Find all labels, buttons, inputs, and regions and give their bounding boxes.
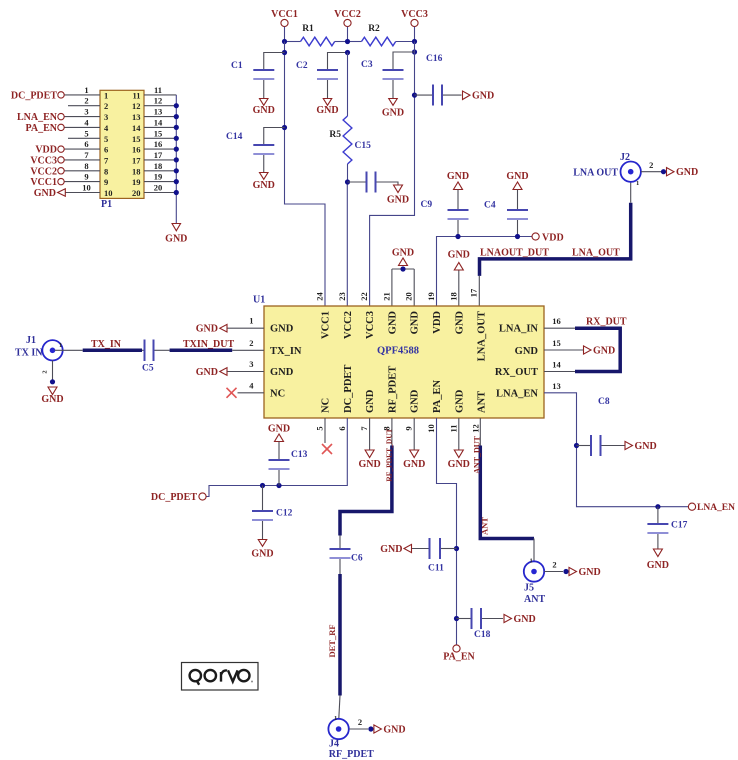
ground P1 bus bbox=[165, 224, 187, 245]
ground U1 pin9 bbox=[403, 418, 425, 470]
wire J4 pin2 bbox=[349, 717, 368, 729]
svg-text:ANT: ANT bbox=[477, 391, 488, 413]
P1 pin 6 wire bbox=[64, 139, 108, 155]
svg-text:C11: C11 bbox=[428, 564, 444, 574]
ground C12 bbox=[251, 540, 273, 560]
capacitor C8 bbox=[577, 397, 625, 456]
svg-text:LNA_OUT: LNA_OUT bbox=[572, 248, 620, 259]
svg-text:LNA_EN: LNA_EN bbox=[697, 503, 735, 513]
wire LNAOUT pin17 stub bbox=[478, 276, 480, 306]
wire VCC2 column to pin23 bbox=[346, 182, 348, 306]
terminal PA_EN bbox=[26, 123, 65, 134]
ground U1 pin3 bbox=[196, 367, 264, 378]
svg-text:22: 22 bbox=[359, 292, 369, 301]
svg-text:TX_IN: TX_IN bbox=[270, 346, 302, 357]
svg-text:2: 2 bbox=[42, 370, 49, 373]
svg-text:GND: GND bbox=[358, 459, 380, 470]
svg-text:5: 5 bbox=[104, 134, 108, 144]
svg-text:C14: C14 bbox=[226, 132, 243, 142]
svg-text:6: 6 bbox=[337, 426, 347, 430]
svg-text:GND: GND bbox=[410, 389, 421, 413]
svg-text:20: 20 bbox=[404, 292, 414, 301]
svg-text:C1: C1 bbox=[231, 61, 243, 71]
terminal VCC3 bbox=[30, 155, 64, 166]
junction rail VCC1 bbox=[282, 39, 287, 44]
svg-text:6: 6 bbox=[104, 145, 108, 155]
junction bus pin20 bbox=[174, 190, 179, 195]
terminal LNA_EN bbox=[17, 112, 64, 123]
svg-text:VCC1: VCC1 bbox=[30, 177, 57, 188]
junction C15 tap bbox=[345, 179, 350, 184]
svg-text:21: 21 bbox=[381, 292, 391, 301]
connector J4 bbox=[328, 715, 374, 760]
P1 pin 3 wire bbox=[64, 107, 108, 123]
svg-text:LNAOUT_DUT: LNAOUT_DUT bbox=[480, 248, 549, 259]
connector J1 bbox=[15, 335, 63, 360]
svg-text:1: 1 bbox=[636, 180, 639, 187]
ground C2 bbox=[316, 99, 338, 117]
ground C1 bbox=[253, 99, 275, 117]
svg-text:J1: J1 bbox=[26, 335, 36, 346]
ground J1 pin2 bbox=[41, 379, 63, 405]
ground C8 bbox=[625, 441, 657, 452]
svg-text:GND: GND bbox=[676, 167, 698, 178]
connector P1 bbox=[100, 90, 144, 210]
svg-text:VCC3: VCC3 bbox=[401, 9, 428, 20]
P1 pin 13 wire bbox=[132, 107, 176, 123]
resistor R2 bbox=[348, 24, 415, 46]
svg-text:20: 20 bbox=[132, 188, 141, 198]
capacitor C4 bbox=[484, 201, 528, 237]
svg-text:17: 17 bbox=[154, 150, 163, 160]
wire DC_PDET route bbox=[206, 418, 347, 497]
terminal LNA_EN bbox=[688, 503, 735, 513]
P1 pin 1 wire bbox=[64, 85, 108, 101]
svg-text:GND: GND bbox=[316, 105, 338, 116]
svg-text:RF_PDET: RF_PDET bbox=[387, 366, 398, 413]
wire VCC2 column upper bbox=[347, 53, 349, 117]
P1 pin 17 wire bbox=[132, 150, 176, 166]
terminal VCC1 bbox=[30, 177, 64, 188]
svg-text:R2: R2 bbox=[368, 24, 380, 34]
P1 pin 16 wire bbox=[132, 139, 176, 155]
svg-text:1: 1 bbox=[530, 558, 533, 565]
svg-text:J5: J5 bbox=[524, 583, 534, 594]
svg-text:1: 1 bbox=[84, 85, 88, 95]
svg-text:1: 1 bbox=[334, 715, 337, 722]
wire J2 pin2 bbox=[641, 160, 662, 172]
ground pin 18 bbox=[448, 250, 470, 307]
svg-text:GND: GND bbox=[196, 324, 218, 335]
junction bus pin14 bbox=[174, 125, 179, 130]
junction rail VCC2 bbox=[345, 39, 350, 44]
P1 GND left arrow bbox=[34, 188, 66, 199]
svg-text:12: 12 bbox=[471, 424, 481, 433]
capacitor C18 bbox=[457, 608, 504, 640]
svg-text:GND: GND bbox=[448, 459, 470, 470]
wire VCC1 to rail bbox=[284, 27, 286, 42]
ground C13 top bbox=[268, 424, 290, 460]
junction C9 VDD bbox=[455, 234, 460, 239]
svg-text:DET_RF: DET_RF bbox=[327, 624, 337, 657]
wire U1 pin14 stub bbox=[544, 371, 575, 373]
svg-text:GND: GND bbox=[447, 171, 469, 182]
svg-text:RX_OUT: RX_OUT bbox=[495, 367, 538, 378]
svg-text:VCC3: VCC3 bbox=[30, 155, 57, 166]
svg-text:GND: GND bbox=[382, 108, 404, 119]
svg-text:11: 11 bbox=[448, 424, 458, 432]
junction bus pin12 bbox=[174, 103, 179, 108]
svg-text:GND: GND bbox=[647, 560, 669, 571]
svg-text:GND: GND bbox=[392, 248, 414, 259]
svg-text:12: 12 bbox=[154, 96, 163, 106]
capacitor C2 bbox=[296, 53, 348, 99]
svg-text:GND: GND bbox=[514, 614, 536, 625]
P1 pin 8 wire bbox=[64, 161, 108, 177]
capacitor C16 bbox=[415, 54, 462, 106]
svg-text:VDD: VDD bbox=[432, 311, 443, 334]
svg-text:14: 14 bbox=[132, 123, 141, 133]
svg-text:GND: GND bbox=[593, 346, 615, 357]
svg-text:2: 2 bbox=[552, 560, 556, 570]
capacitor C12 bbox=[252, 486, 293, 540]
svg-text:C3: C3 bbox=[361, 60, 373, 70]
svg-text:GND: GND bbox=[380, 544, 402, 555]
terminal VDD bbox=[532, 233, 564, 244]
P1 pin 2 wire bbox=[68, 96, 108, 112]
svg-text:1: 1 bbox=[249, 316, 253, 326]
no-connect X U1 pin5 bbox=[322, 418, 332, 454]
svg-text:13: 13 bbox=[154, 107, 163, 117]
svg-text:ANT: ANT bbox=[524, 594, 545, 605]
junction bus pin13 bbox=[174, 114, 179, 119]
svg-text:3: 3 bbox=[84, 107, 88, 117]
junction rail VCC3 bbox=[412, 39, 417, 44]
svg-text:GND: GND bbox=[454, 311, 465, 335]
svg-text:4: 4 bbox=[249, 380, 254, 390]
svg-text:8: 8 bbox=[104, 166, 108, 176]
svg-text:ANT_DUT: ANT_DUT bbox=[473, 435, 482, 473]
svg-text:J4: J4 bbox=[329, 739, 339, 750]
svg-text:C18: C18 bbox=[474, 630, 491, 640]
wire LNA_EN route bbox=[544, 393, 689, 507]
capacitor C11 bbox=[412, 538, 457, 574]
svg-text:VCC1: VCC1 bbox=[271, 9, 298, 20]
svg-text:2: 2 bbox=[249, 338, 253, 348]
svg-text:20: 20 bbox=[154, 183, 163, 193]
wire VCC3 column bbox=[370, 42, 415, 307]
terminal VCC2 bbox=[30, 166, 64, 177]
junction bus pin17 bbox=[174, 157, 179, 162]
svg-text:PA_EN: PA_EN bbox=[26, 123, 58, 134]
svg-text:19: 19 bbox=[154, 172, 163, 182]
wire LNA_OUT thick trace bbox=[480, 203, 631, 276]
svg-text:10: 10 bbox=[426, 424, 436, 433]
resistor R5 bbox=[329, 116, 352, 182]
svg-text:24: 24 bbox=[315, 292, 325, 301]
svg-text:10: 10 bbox=[82, 183, 91, 193]
ground C3 bbox=[382, 99, 404, 119]
svg-text:14: 14 bbox=[154, 117, 163, 127]
wire P1 ground bus bbox=[175, 95, 177, 224]
svg-text:NC: NC bbox=[321, 398, 332, 413]
ground J5 pin2 bbox=[563, 567, 600, 578]
junction C18 tap bbox=[454, 616, 459, 621]
wire RX_DUT thick trace bbox=[575, 317, 627, 372]
svg-text:GND: GND bbox=[196, 367, 218, 378]
svg-text:R1: R1 bbox=[302, 24, 314, 34]
svg-text:LNA OUT: LNA OUT bbox=[573, 168, 618, 179]
svg-text:9: 9 bbox=[104, 177, 108, 187]
svg-text:GND: GND bbox=[365, 389, 376, 413]
junction bus pin18 bbox=[174, 168, 179, 173]
svg-text:17: 17 bbox=[132, 155, 141, 165]
P1 pin 4 wire bbox=[64, 117, 109, 132]
capacitor C14 bbox=[226, 128, 285, 173]
wire pin2 stub bbox=[232, 349, 264, 351]
ground J4 pin2 bbox=[368, 725, 405, 736]
svg-text:1: 1 bbox=[104, 90, 108, 100]
svg-text:11: 11 bbox=[154, 85, 162, 95]
svg-text:18: 18 bbox=[154, 161, 163, 171]
svg-text:C6: C6 bbox=[351, 554, 363, 564]
capacitor C3 bbox=[361, 52, 415, 99]
no-connect X U1 pin4 bbox=[227, 388, 265, 398]
svg-text:C17: C17 bbox=[671, 521, 688, 531]
P1 pin 9 wire bbox=[64, 172, 108, 188]
svg-text:2: 2 bbox=[649, 160, 653, 170]
wire J5 stub bbox=[533, 539, 535, 562]
svg-text:GND: GND bbox=[268, 424, 290, 435]
ground C18 bbox=[504, 614, 536, 625]
junction C17 tap bbox=[655, 504, 660, 509]
junction bus pin16 bbox=[174, 147, 179, 152]
svg-text:2: 2 bbox=[84, 96, 88, 106]
ground U1 pin7 bbox=[358, 418, 380, 470]
svg-text:GND: GND bbox=[253, 105, 275, 116]
svg-text:GND: GND bbox=[251, 549, 273, 560]
svg-text:GND: GND bbox=[410, 311, 421, 335]
P1 pin 20 wire bbox=[132, 183, 176, 199]
svg-text:C13: C13 bbox=[291, 450, 308, 460]
svg-text:11: 11 bbox=[132, 90, 140, 100]
junction C3 tap bbox=[412, 49, 417, 54]
svg-text:GND: GND bbox=[41, 394, 63, 405]
Qorvo logo bbox=[182, 663, 259, 691]
svg-text:18: 18 bbox=[448, 292, 458, 301]
svg-text:12: 12 bbox=[132, 101, 141, 111]
svg-text:GND: GND bbox=[454, 389, 465, 413]
wire VCC3 to rail bbox=[414, 27, 416, 42]
svg-text:17: 17 bbox=[469, 288, 479, 297]
P1 pin 5 wire bbox=[68, 128, 108, 144]
terminal PA_EN bbox=[443, 645, 475, 663]
svg-text:LNA_IN: LNA_IN bbox=[499, 324, 539, 335]
svg-text:8: 8 bbox=[84, 161, 88, 171]
svg-text:5: 5 bbox=[84, 128, 88, 138]
svg-text:14: 14 bbox=[552, 360, 561, 370]
svg-text:U1: U1 bbox=[253, 295, 265, 306]
wire VDD rail bbox=[437, 237, 533, 307]
wire TX_IN thick trace bbox=[83, 339, 142, 350]
capacitor C13 bbox=[269, 450, 308, 486]
svg-text:GND: GND bbox=[472, 91, 494, 102]
P1 pin 10 wire bbox=[65, 183, 112, 199]
svg-text:DC_PDET: DC_PDET bbox=[343, 365, 354, 413]
svg-text:6: 6 bbox=[84, 139, 88, 149]
capacitor C9 bbox=[421, 200, 469, 237]
junction C8 tap bbox=[574, 443, 579, 448]
P1 pin 11 wire bbox=[132, 85, 176, 101]
svg-text:GND: GND bbox=[253, 180, 275, 191]
svg-text:19: 19 bbox=[426, 292, 436, 301]
svg-text:PA_EN: PA_EN bbox=[443, 652, 475, 663]
junction bus pin15 bbox=[174, 136, 179, 141]
svg-text:18: 18 bbox=[132, 166, 141, 176]
svg-text:15: 15 bbox=[154, 128, 163, 138]
svg-text:1: 1 bbox=[59, 342, 62, 349]
svg-text:GND: GND bbox=[387, 311, 398, 335]
terminal DC_PDET bbox=[11, 90, 64, 101]
svg-text:GND: GND bbox=[515, 346, 539, 357]
svg-text:GND: GND bbox=[387, 195, 409, 206]
ground U1 pin15 bbox=[544, 346, 615, 357]
terminal DC_PDET bbox=[151, 492, 206, 503]
svg-text:15: 15 bbox=[132, 134, 141, 144]
svg-text:TX_IN: TX_IN bbox=[91, 339, 122, 350]
junction C2 tap bbox=[345, 50, 350, 55]
svg-text:19: 19 bbox=[132, 177, 141, 187]
svg-text:13: 13 bbox=[552, 381, 561, 391]
terminal VCC1 bbox=[271, 9, 298, 27]
svg-text:NC: NC bbox=[270, 388, 285, 399]
svg-text:LNA_EN: LNA_EN bbox=[496, 388, 538, 399]
ground J2 pin2 bbox=[661, 167, 698, 178]
ground C17 bbox=[647, 549, 669, 571]
svg-text:VCC1: VCC1 bbox=[321, 311, 332, 339]
ground U1 pin1 bbox=[196, 324, 264, 335]
svg-text:7: 7 bbox=[359, 426, 369, 431]
capacitor C1 bbox=[231, 53, 285, 99]
svg-text:GND: GND bbox=[383, 725, 405, 736]
svg-text:DC_PDET: DC_PDET bbox=[11, 90, 57, 101]
ground C4 top bbox=[506, 171, 528, 209]
capacitor C5 bbox=[142, 340, 170, 374]
ground C16 bbox=[463, 91, 495, 102]
P1 pin 14 wire bbox=[132, 117, 176, 132]
svg-text:TX IN: TX IN bbox=[15, 348, 43, 359]
svg-text:R5: R5 bbox=[329, 130, 341, 140]
capacitor C6 bbox=[330, 549, 363, 564]
junction C16 tap bbox=[412, 93, 417, 98]
op-amp U1 QPF4588 body bbox=[253, 295, 544, 419]
svg-text:16: 16 bbox=[552, 316, 561, 326]
junction C12 tap bbox=[260, 483, 265, 488]
terminal VCC3 bbox=[401, 9, 428, 27]
P1 pin 18 wire bbox=[132, 161, 176, 177]
junction C14 tap bbox=[282, 125, 287, 130]
svg-text:RF_PDET: RF_PDET bbox=[329, 749, 374, 760]
wire TXIN_DUT thick trace bbox=[170, 339, 235, 350]
junction C1 tap bbox=[282, 50, 287, 55]
junction bus pin19 bbox=[174, 179, 179, 184]
svg-text:VCC3: VCC3 bbox=[365, 311, 376, 339]
svg-text:GND: GND bbox=[270, 324, 294, 335]
ground C14 bbox=[253, 173, 275, 192]
ground C15 bbox=[387, 185, 409, 206]
wire ANT thick trace bbox=[473, 418, 535, 539]
svg-text:GND: GND bbox=[165, 234, 187, 245]
svg-text:P1: P1 bbox=[101, 199, 112, 210]
svg-text:C15: C15 bbox=[355, 141, 372, 151]
svg-text:RX_DUT: RX_DUT bbox=[586, 317, 627, 328]
svg-text:13: 13 bbox=[132, 112, 141, 122]
svg-text:C4: C4 bbox=[484, 201, 496, 211]
junction C4 VDD bbox=[515, 234, 520, 239]
ground pins 21 20 bbox=[392, 248, 414, 307]
svg-text:C16: C16 bbox=[426, 54, 443, 64]
ground U1 pin11 bbox=[448, 418, 470, 470]
svg-text:GND: GND bbox=[506, 171, 528, 182]
P1 pin 19 wire bbox=[132, 172, 176, 188]
wire RF_PDET thick trace bbox=[340, 418, 394, 548]
terminal VCC2 bbox=[334, 9, 361, 27]
svg-text:ANT: ANT bbox=[480, 517, 490, 535]
svg-text:9: 9 bbox=[404, 426, 414, 430]
junction C13 tap bbox=[276, 483, 281, 488]
svg-text:C5: C5 bbox=[142, 364, 154, 374]
svg-text:LNA_EN: LNA_EN bbox=[17, 112, 58, 123]
svg-text:3: 3 bbox=[249, 359, 253, 369]
svg-text:PA_EN: PA_EN bbox=[432, 380, 443, 413]
ground C9 top bbox=[447, 171, 469, 209]
svg-text:GND: GND bbox=[270, 367, 294, 378]
wire J1 pin2 down bbox=[42, 361, 53, 382]
svg-text:GND: GND bbox=[635, 441, 657, 452]
svg-text:C12: C12 bbox=[276, 509, 293, 519]
svg-text:9: 9 bbox=[84, 172, 88, 182]
wire J5 pin2 bbox=[544, 560, 563, 572]
svg-text:TXIN_DUT: TXIN_DUT bbox=[183, 339, 234, 350]
svg-text:3: 3 bbox=[104, 112, 108, 122]
ground C11 left bbox=[380, 544, 411, 555]
svg-text:C2: C2 bbox=[296, 61, 308, 71]
wire J4 stub bbox=[339, 696, 340, 719]
connector J2 bbox=[573, 152, 641, 187]
svg-text:LNA_OUT: LNA_OUT bbox=[477, 311, 488, 361]
svg-text:2: 2 bbox=[104, 101, 108, 111]
capacitor C15 bbox=[348, 141, 399, 193]
wire J1 pin1 bbox=[55, 349, 83, 351]
junction C11 tap bbox=[454, 546, 459, 551]
svg-text:C8: C8 bbox=[598, 397, 610, 407]
svg-text:DC_PDET: DC_PDET bbox=[151, 492, 197, 503]
svg-text:C9: C9 bbox=[421, 200, 433, 210]
wire J2 stub bbox=[630, 182, 632, 203]
svg-text:23: 23 bbox=[337, 292, 347, 301]
svg-text:10: 10 bbox=[104, 188, 113, 198]
terminal VDD bbox=[35, 145, 64, 156]
svg-text:GND: GND bbox=[579, 567, 601, 578]
wire PA_EN route bbox=[437, 418, 457, 645]
svg-text:15: 15 bbox=[552, 338, 561, 348]
svg-text:VCC2: VCC2 bbox=[334, 9, 361, 20]
svg-text:VDD: VDD bbox=[542, 233, 564, 244]
wire U1 pin16 stub bbox=[544, 327, 575, 329]
svg-text:QPF4588: QPF4588 bbox=[377, 346, 419, 357]
wire VCC2 to rail bbox=[347, 27, 349, 42]
P1 pin 7 wire bbox=[64, 150, 109, 166]
